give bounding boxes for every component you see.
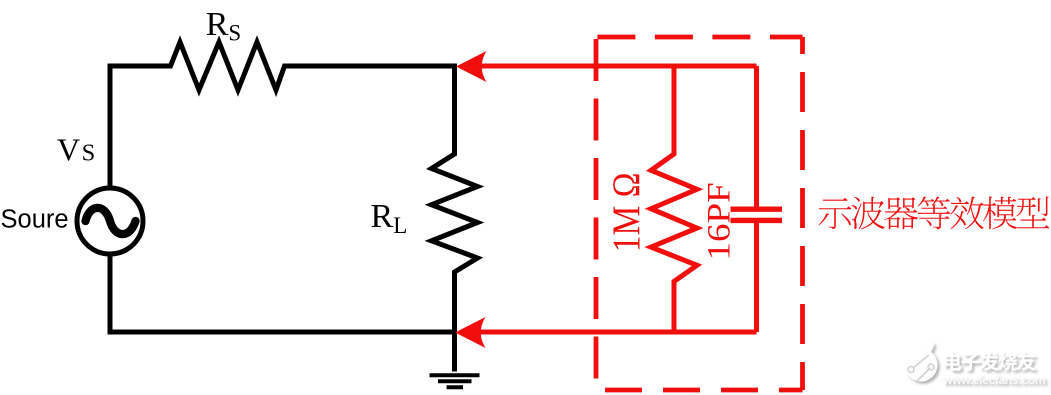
svg-text:www.elecfans.com: www.elecfans.com [942,373,1046,387]
svg-text:1M Ω: 1M Ω [605,173,648,253]
svg-text:Soure: Soure [1,206,69,234]
svg-text:16PF: 16PF [701,182,737,260]
